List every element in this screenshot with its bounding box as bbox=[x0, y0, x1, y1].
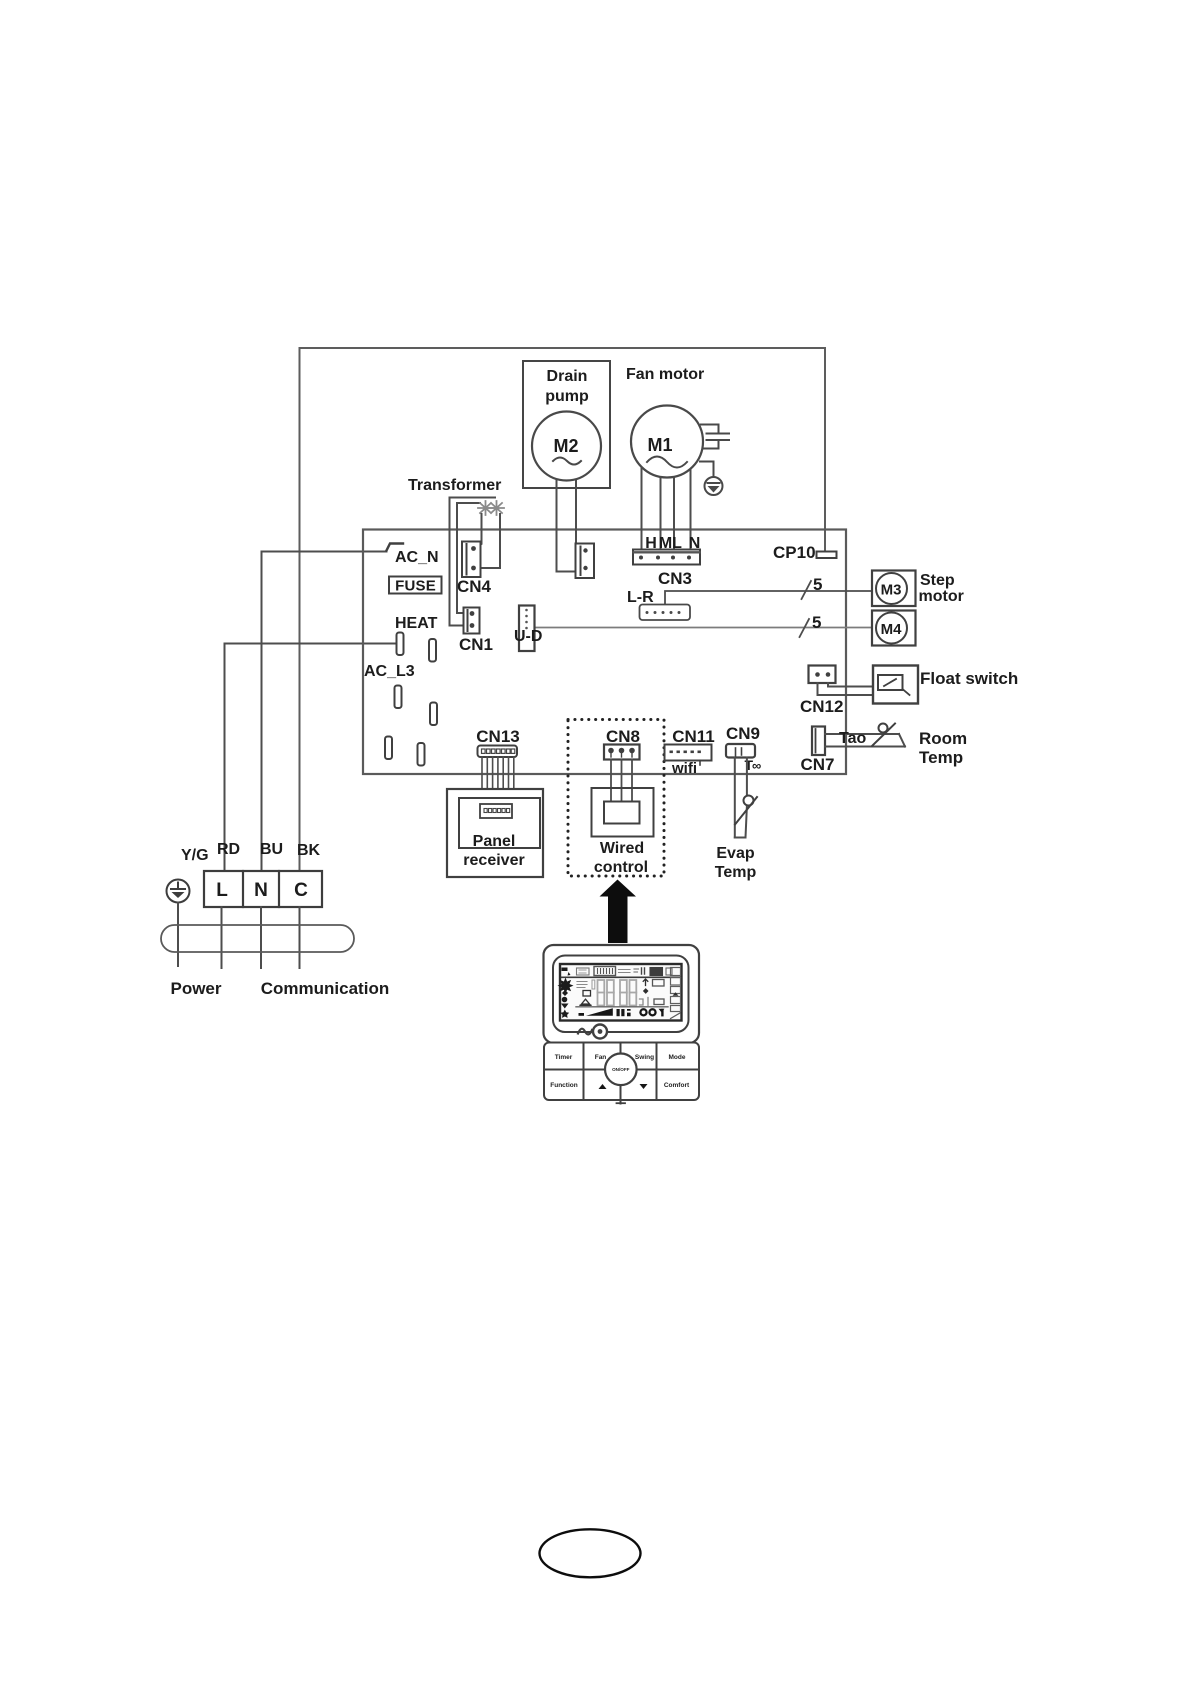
motor M2 bbox=[532, 412, 601, 481]
fuse FUSE bbox=[389, 577, 442, 594]
ribbon CN13 to panel receiver bbox=[482, 757, 514, 804]
svg-text:M3: M3 bbox=[881, 582, 902, 599]
svg-text:BK: BK bbox=[297, 842, 321, 859]
LCD right-mid icons bbox=[640, 979, 665, 1006]
bus marker 5 (M4 wire) bbox=[800, 619, 810, 637]
controller LCD bbox=[560, 964, 682, 1021]
svg-text:M2: M2 bbox=[553, 436, 578, 456]
svg-text:Evap: Evap bbox=[716, 845, 754, 862]
contact bar 2 bbox=[429, 639, 436, 662]
transformer secondary wire to CN4 top pin bbox=[475, 514, 482, 549]
svg-text:Temp: Temp bbox=[715, 864, 757, 881]
contact bar 4 bbox=[430, 703, 437, 726]
svg-text:C: C bbox=[294, 880, 308, 901]
svg-text:Wired: Wired bbox=[600, 840, 644, 857]
svg-text:receiver: receiver bbox=[463, 852, 524, 869]
node AC_N hook bbox=[387, 544, 404, 551]
panel receiver box bbox=[447, 789, 543, 877]
evap temp sensor loop bbox=[735, 758, 747, 838]
cable sheath oval bbox=[161, 925, 354, 952]
svg-text:∞: ∞ bbox=[752, 758, 761, 773]
svg-text:Timer: Timer bbox=[555, 1054, 573, 1061]
svg-text:Fan: Fan bbox=[595, 1054, 607, 1061]
wired control unit box bbox=[592, 788, 654, 837]
wire L terminal to HEAT contact bbox=[225, 644, 397, 872]
connector CN13 bbox=[478, 746, 518, 758]
wire CN12 to float switch (upper) bbox=[828, 683, 873, 687]
contact bar 3 bbox=[395, 686, 402, 709]
wires M1 to CN3 (H M L N) bbox=[642, 445, 691, 550]
step motor M4 bbox=[872, 611, 916, 646]
connector CN9 bbox=[726, 744, 755, 758]
page number oval bbox=[540, 1529, 641, 1577]
LCD 7-seg digits pair 2 bbox=[620, 980, 636, 1006]
svg-text:RD: RD bbox=[217, 841, 240, 858]
svg-text:Tao: Tao bbox=[839, 730, 866, 747]
svg-text:Step: Step bbox=[920, 572, 955, 589]
svg-text:motor: motor bbox=[919, 588, 964, 605]
connector CN3 bbox=[633, 550, 700, 565]
LCD tri icon bbox=[580, 999, 591, 1005]
transformer secondary wire to CN4 bottom pin bbox=[481, 514, 501, 568]
dashed box wired control bbox=[568, 720, 664, 877]
LCD fan bars wedge bbox=[586, 1008, 613, 1016]
bus marker 5 (M3 wire) bbox=[802, 581, 812, 599]
svg-text:Temp: Temp bbox=[919, 748, 963, 767]
svg-text:BU: BU bbox=[260, 841, 283, 858]
connector L-R bbox=[640, 605, 691, 621]
button grid lines bbox=[544, 1043, 699, 1104]
PCB board outline bbox=[363, 530, 846, 775]
button arrows bbox=[599, 1084, 607, 1089]
svg-text:Transformer: Transformer bbox=[408, 477, 501, 494]
arrow to wired control bbox=[600, 880, 637, 944]
connector CN7 bbox=[812, 727, 825, 756]
wire M2 right lead bbox=[575, 446, 577, 544]
LCD divider 2 bbox=[576, 1006, 668, 1008]
LCD bottom icons bbox=[617, 1008, 665, 1016]
svg-text:CP10: CP10 bbox=[773, 543, 816, 562]
svg-text:AC_L3: AC_L3 bbox=[364, 663, 415, 680]
connector CN11 bbox=[665, 745, 712, 766]
controller buttons panel bbox=[544, 1043, 699, 1101]
wire N terminal to AC_N bbox=[262, 552, 387, 872]
connector inside panel receiver bbox=[480, 804, 512, 818]
svg-text:Panel: Panel bbox=[473, 833, 516, 850]
LCD left icon column bbox=[558, 968, 574, 1018]
svg-text:Y/G: Y/G bbox=[181, 847, 209, 864]
thermistor (evap) bbox=[744, 796, 754, 806]
connector U-D bbox=[519, 606, 535, 652]
svg-text:Swing: Swing bbox=[635, 1054, 654, 1061]
contact bar 6 bbox=[418, 743, 425, 766]
svg-text:CN12: CN12 bbox=[800, 697, 843, 716]
connector CN8 bbox=[604, 745, 640, 760]
ON/OFF button bbox=[605, 1054, 637, 1086]
svg-text:CN8: CN8 bbox=[606, 727, 640, 746]
svg-text:AC_N: AC_N bbox=[395, 549, 439, 566]
drain pump box bbox=[523, 361, 610, 488]
svg-text:CN1: CN1 bbox=[459, 635, 493, 654]
svg-text:ON/OFF: ON/OFF bbox=[612, 1067, 630, 1072]
svg-text:CN11: CN11 bbox=[672, 727, 715, 746]
wire CN12 to float switch (lower) bbox=[818, 683, 910, 695]
button labels bbox=[550, 1054, 690, 1089]
svg-text:Power: Power bbox=[170, 979, 221, 998]
LCD top row bbox=[577, 967, 673, 976]
svg-text:5: 5 bbox=[812, 613, 821, 632]
float switch bbox=[873, 666, 918, 704]
wire C lead down bbox=[299, 907, 301, 968]
svg-text:CN7: CN7 bbox=[801, 755, 835, 774]
wire M2 left lead bbox=[557, 446, 576, 572]
wire L-R to step motor M3 bbox=[665, 591, 872, 605]
svg-text:Comfort: Comfort bbox=[664, 1082, 690, 1089]
ground (fan motor) bbox=[700, 462, 723, 496]
svg-text:Room: Room bbox=[919, 729, 967, 748]
svg-text:HEAT: HEAT bbox=[395, 615, 438, 632]
svg-text:Fan motor: Fan motor bbox=[626, 366, 704, 383]
transformer primary wire (inner loop to CN1) bbox=[457, 503, 480, 613]
LCD small left texts bbox=[577, 982, 587, 988]
transformer coil symbol bbox=[478, 501, 504, 515]
svg-text:M4: M4 bbox=[881, 621, 902, 638]
svg-text:CN13: CN13 bbox=[476, 727, 519, 746]
wire L lead down bbox=[221, 907, 223, 968]
svg-text:5: 5 bbox=[813, 575, 822, 594]
LCD mail icon bbox=[583, 991, 591, 997]
ground symbol Y/G bbox=[167, 880, 190, 903]
connector CN4 bbox=[462, 542, 481, 578]
transformer primary wire (outer loop to CN1) bbox=[450, 498, 496, 626]
capacitor (fan motor) bbox=[701, 425, 729, 449]
svg-text:M1: M1 bbox=[647, 435, 672, 455]
svg-text:CN3: CN3 bbox=[658, 569, 692, 588]
svg-text:FUSE: FUSE bbox=[395, 578, 436, 595]
svg-text:wifi: wifi bbox=[671, 760, 697, 777]
svg-text:Communication: Communication bbox=[261, 979, 389, 998]
contact bar 5 bbox=[385, 737, 392, 760]
wire ground lead down bbox=[177, 903, 179, 967]
connector CN1 bbox=[464, 608, 480, 634]
LCD right column bbox=[671, 968, 681, 1019]
room temp sensor Tao bbox=[879, 724, 888, 733]
connector CN12 bbox=[809, 666, 836, 684]
LCD 7-seg digits pair 1 bbox=[598, 980, 614, 1006]
svg-text:L-R: L-R bbox=[627, 589, 654, 606]
motor M1 bbox=[631, 406, 703, 478]
svg-text:Mode: Mode bbox=[669, 1054, 686, 1061]
wire CN7 room temp sensor loop bbox=[825, 734, 905, 747]
svg-text:L: L bbox=[216, 880, 228, 901]
svg-text:U-D: U-D bbox=[514, 628, 542, 645]
svg-text:CN9: CN9 bbox=[726, 724, 760, 743]
CP10 pad bbox=[817, 552, 837, 559]
svg-text:CN4: CN4 bbox=[457, 577, 492, 596]
connector drain pump (on PCB) bbox=[576, 544, 595, 579]
wire C terminal to CP10 (routed around top) bbox=[300, 348, 826, 871]
bottom tick bbox=[617, 1102, 626, 1104]
LCD small rect under digits bbox=[592, 980, 595, 989]
svg-text:Float switch: Float switch bbox=[920, 669, 1018, 688]
wire N lead down bbox=[260, 907, 262, 968]
controller display bezel bbox=[553, 956, 689, 1033]
wires CN8 to wired control bbox=[611, 760, 632, 802]
wire U-D to step motor M4 bbox=[535, 627, 873, 629]
svg-text:control: control bbox=[594, 859, 648, 876]
LCD divider 1 bbox=[562, 976, 681, 978]
svg-text:Function: Function bbox=[550, 1082, 577, 1089]
bezel cord wave bbox=[578, 1029, 592, 1035]
svg-text:Drain: Drain bbox=[547, 368, 588, 385]
svg-text:pump: pump bbox=[545, 388, 589, 405]
step motor M3 bbox=[872, 571, 916, 607]
wired controller body bbox=[544, 945, 700, 1043]
contact bar 1 bbox=[397, 633, 404, 656]
terminal block L N C bbox=[204, 871, 322, 907]
svg-text:N: N bbox=[254, 880, 268, 901]
